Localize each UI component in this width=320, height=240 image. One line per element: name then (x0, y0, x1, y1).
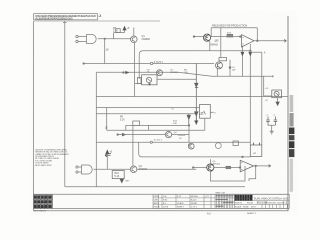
node input dot (193, 36, 195, 38)
border frame top (34, 20, 160, 22)
note N1 flag mark (99, 14, 101, 16)
transistor Q8 (216, 62, 223, 69)
resistor R1 label (106, 48, 109, 52)
power +15 mark (249, 52, 252, 55)
wire Q3 down (209, 41, 211, 51)
wire rounded bend W2 (139, 51, 250, 79)
gate U1B input terminal circles (76, 166, 78, 168)
vertical wire left column (95, 73, 97, 187)
wire feedback loop U3 inner (249, 166, 256, 181)
resistor R8 label (184, 70, 188, 74)
wire bus4 (96, 96, 288, 98)
node bus1 left terminal (83, 63, 85, 65)
wire feedback loop U2 top (211, 28, 257, 41)
resistor R5 body (116, 29, 120, 33)
wire S4 left (264, 95, 272, 97)
op-amp U2 (242, 35, 255, 47)
resistor R5 labels (113, 27, 118, 33)
node J2 (240, 36, 242, 38)
switch S3 pin label (214, 112, 216, 114)
resistor R12 label blob (173, 121, 178, 126)
node J5 (255, 165, 257, 167)
transistor Q1 (131, 36, 138, 43)
wire emitter stub to switch (135, 83, 142, 85)
node J4 (239, 167, 241, 169)
wire S4 drop (263, 76, 265, 96)
border frame right (287, 16, 289, 211)
node C4 dot (229, 67, 231, 69)
switch S1 circle (146, 77, 151, 82)
wire bus7 (107, 129, 205, 131)
node J9 (188, 125, 190, 127)
ground mark G1 (270, 131, 274, 134)
wire Q4 out (172, 134, 189, 136)
node T2 output circle (150, 141, 152, 143)
wire J1 down to bus1 (104, 39, 106, 64)
wire bus6 (96, 113, 196, 115)
table band bottom line (53, 207, 290, 209)
wire tap from loop to R17 (220, 28, 222, 58)
title text (254, 196, 289, 200)
transistor Q8 leg down (216, 69, 218, 77)
capacitor C4 labels (232, 67, 236, 72)
node input dot 2 (192, 167, 194, 169)
node T1 label (154, 61, 164, 64)
transistor Q6 (188, 143, 194, 149)
power -15 mark (241, 52, 244, 55)
node rail tick label (264, 52, 266, 55)
wire R9 bracket (126, 125, 189, 130)
logo mark (235, 195, 253, 201)
switch S4 box (272, 90, 282, 98)
bottom rail wire (65, 186, 245, 188)
resistor R14 label (227, 32, 232, 34)
parts table cell flecks (216, 195, 234, 206)
wire to Q4 (119, 134, 166, 136)
parts table (153, 192, 234, 209)
diode CR1 (126, 71, 129, 73)
capacitor C2 label (273, 115, 276, 117)
node J1 (104, 38, 105, 39)
gate U1A body (87, 35, 97, 44)
terminal arrow T3 (105, 153, 111, 157)
released stamp smudge (212, 24, 247, 27)
right margin strip line (287, 16, 289, 211)
resistor R9 labels (120, 117, 125, 122)
capacitor C1 (266, 117, 270, 126)
note N1 text (35, 15, 97, 21)
wire CR5 drop (188, 125, 190, 142)
power +5V arrow A1 (123, 27, 126, 30)
box K1 across rails (250, 145, 261, 157)
op-amp U3 pin marks (241, 163, 243, 170)
switch S3 pin wire (210, 111, 213, 113)
wire rounded bend W3 (139, 142, 251, 157)
resistor R14 body (227, 34, 233, 37)
transistor Q2 labels (139, 165, 148, 171)
transistor Q3 cluster (203, 34, 210, 41)
wire bus5 (96, 107, 199, 109)
resistor R15 body (226, 166, 231, 168)
border frame bottom (34, 210, 289, 212)
resistor R16 box (112, 171, 124, 179)
wire input to Q3 (195, 36, 204, 38)
wire input w/ dot (117, 134, 119, 136)
wire Q1 emitter down (134, 43, 136, 97)
switch S1 label (147, 69, 151, 73)
resistor R13 body (233, 141, 238, 145)
node bus5 label (171, 109, 174, 111)
diode CR4 (195, 108, 198, 124)
transistor Q2 (130, 166, 137, 173)
diode CR4 lower arrowhead (195, 121, 198, 124)
wire rail V- (261, 52, 263, 145)
switch S4 circle (274, 91, 279, 96)
wire Q5 top stub (209, 159, 211, 164)
node tick under note box (63, 22, 67, 24)
revision table left (33, 195, 52, 213)
node terminal dot on bus2 (123, 72, 125, 74)
node output tick 2 (269, 165, 271, 168)
power +5V arrow A2 (106, 150, 109, 153)
resistor R17 body (219, 58, 227, 61)
title row2 text (235, 203, 286, 205)
transistor Q3 labels (210, 40, 220, 47)
transistor Q4 (165, 131, 171, 137)
wire input to Q5 (194, 167, 207, 169)
wire Q2 out (137, 168, 196, 170)
gate U1B input wires (78, 167, 81, 172)
power +5V label (127, 27, 130, 30)
gate U1B body (82, 165, 93, 174)
resistor R17 label (215, 41, 220, 43)
capacitor C2 (274, 117, 278, 126)
box K1 top pins (254, 143, 260, 145)
note box N1 (34, 14, 98, 20)
inner vertical boundary wire (64, 21, 66, 187)
switch S1 pin mark (149, 83, 151, 85)
capacitor C4 stem (229, 60, 231, 77)
switch S1 box (142, 75, 157, 85)
transistor Q6 label (188, 144, 192, 146)
border frame left (33, 21, 35, 211)
wire Q2 collector up (132, 125, 134, 166)
diode CR4 label (199, 114, 204, 116)
scan grain overlay (31, 11, 297, 215)
diode CR3 (195, 64, 199, 124)
sheet footnote text (207, 213, 257, 216)
transistor Q5 labels (212, 161, 220, 166)
gate U1B output wire (94, 168, 131, 170)
wire S4 down (277, 98, 279, 102)
diode CR7 (120, 179, 124, 183)
gate U1A input terminal circles (76, 35, 78, 37)
switch S3 box (200, 105, 211, 119)
transistor Q4 label (174, 132, 186, 140)
switch S4 labels (265, 88, 269, 102)
transistor Q7 label (170, 70, 178, 74)
resistor R6 body (137, 78, 141, 84)
transistor Q9 (215, 143, 221, 149)
op-amp U3 output wire (254, 165, 271, 167)
node T2 label (154, 139, 163, 141)
wire bus8 (96, 141, 250, 143)
node T1 output circle (150, 62, 152, 64)
diode CR8 (276, 102, 279, 105)
diode CR5 (187, 114, 190, 126)
op-amp U2 pin marks (242, 37, 244, 44)
transistor Q5 cluster (207, 164, 214, 171)
node stub tick (272, 75, 274, 77)
wire rail bridge (250, 51, 261, 53)
wire Q3 to U2 (211, 36, 242, 38)
gate U1A output wire (98, 38, 131, 40)
node W2 end dot (250, 50, 252, 52)
op-amp U2 output wire (254, 40, 286, 42)
left address text block (35, 149, 69, 166)
op-amp U3 (240, 160, 253, 172)
wire mid vertical (106, 108, 108, 131)
resistor R9 body (133, 121, 140, 125)
wire R5 bracket (114, 30, 125, 39)
box K1 label (253, 152, 256, 155)
wire Q5 to U3 (214, 167, 240, 169)
gate U1A input wires (78, 37, 86, 42)
table band top line (34, 193, 289, 195)
title row3 text (235, 205, 256, 208)
wire A2 down (106, 154, 108, 170)
switch S3 inner contact (201, 111, 206, 115)
capacitor C1 label (265, 115, 269, 117)
wire caps join (268, 125, 275, 131)
op-amp U2 supply stubs (242, 44, 250, 145)
wire S3 bottom down (204, 118, 206, 130)
diode CR7 label (125, 180, 130, 182)
transistor Q1 labels (142, 35, 151, 41)
wire bus3 (157, 78, 196, 80)
wire Q1 collector up (133, 28, 135, 37)
wire feedback loop U3 bottom (210, 166, 245, 181)
wire bus1 (84, 63, 214, 65)
power +5V label2 (109, 151, 112, 154)
title block (234, 194, 289, 208)
wire bus2 (96, 72, 273, 76)
node J3 (257, 40, 259, 42)
resistor R16 labels (114, 172, 119, 178)
resistor R10 label (105, 127, 108, 130)
parts table header smudge (216, 192, 227, 195)
node output tick (284, 39, 286, 42)
diode CR6 (122, 133, 125, 135)
transistor Q7 (157, 70, 163, 76)
node J6 (242, 156, 244, 158)
right margin text blocks (289, 95, 294, 192)
